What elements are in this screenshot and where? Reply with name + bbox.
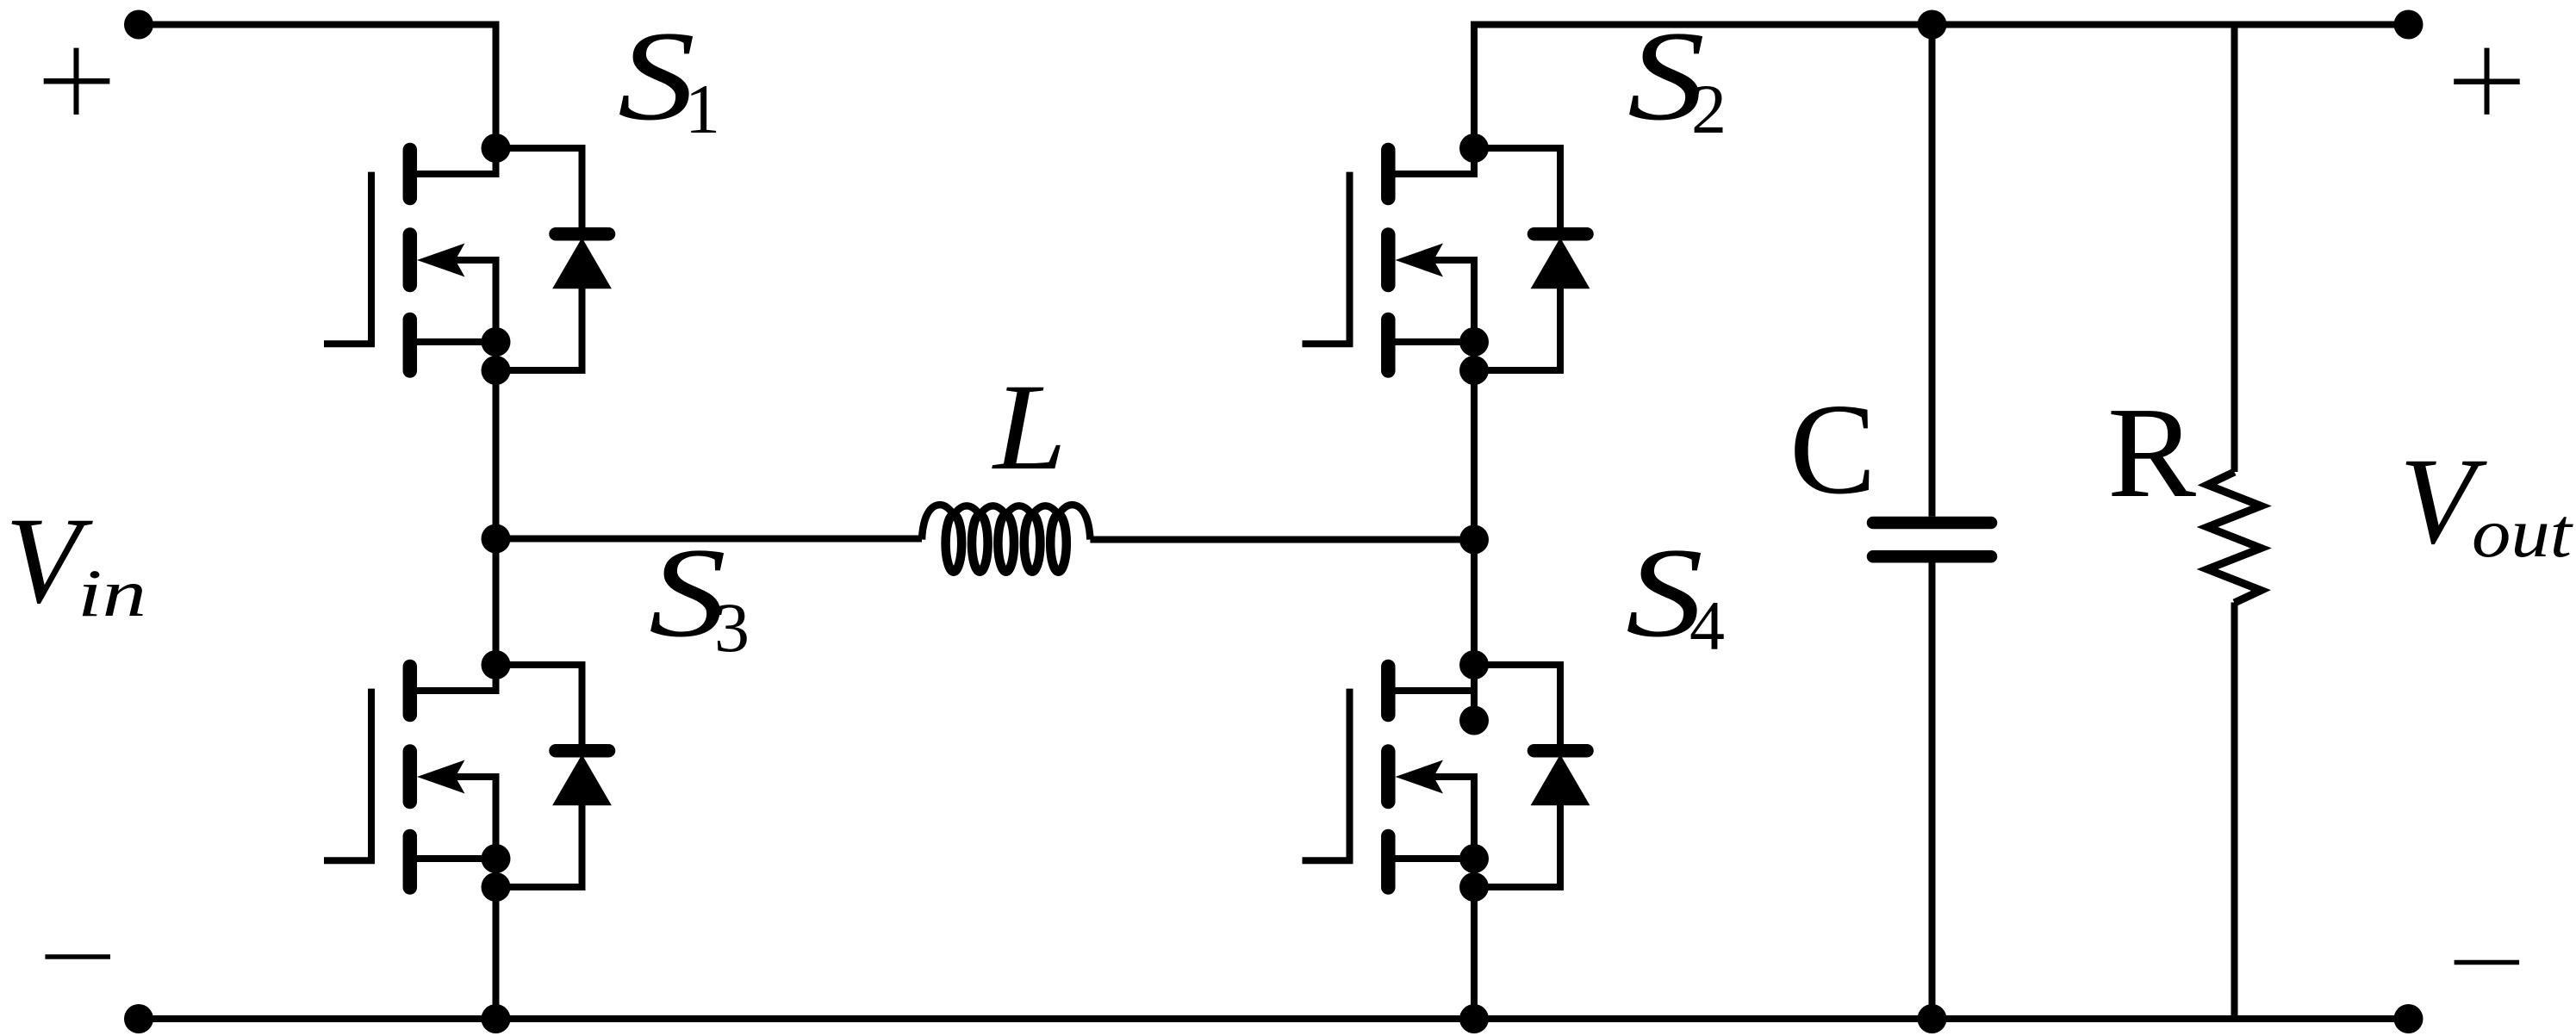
svg-text:C: C	[1789, 376, 1876, 521]
svg-text:1: 1	[685, 70, 720, 148]
svg-text:S: S	[618, 5, 695, 147]
svg-text:in: in	[78, 555, 146, 630]
svg-text:R: R	[2107, 380, 2196, 524]
svg-text:2: 2	[1691, 70, 1727, 148]
svg-text:out: out	[2472, 493, 2573, 572]
svg-text:L: L	[992, 359, 1067, 496]
svg-text:4: 4	[1689, 586, 1725, 665]
svg-text:3: 3	[714, 588, 750, 667]
